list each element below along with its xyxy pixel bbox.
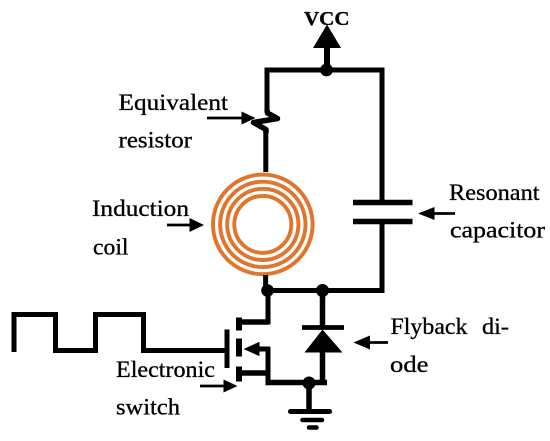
VCC power arrow symbol [313,25,341,73]
svg-text:resistor: resistor [119,128,193,154]
svg-text:switch: switch [116,395,180,421]
node: VCC junction dot [320,64,333,77]
ground symbol [291,383,330,428]
label: Induction coil [92,196,189,261]
capacitor C (resonant capacitor) plates [353,203,413,222]
arrow pointing to resistor [207,112,256,125]
svg-text:di-: di- [482,314,509,340]
svg-text:ode: ode [390,352,429,378]
wire: resistor to induction coil [263,129,268,172]
wire: top rail [265,68,385,73]
svg-text:capacitor: capacitor [450,218,545,244]
label: Flyback diode (hyphenated) [390,314,509,378]
svg-text:Resonant: Resonant [449,180,540,206]
inductor L (induction coil) [213,175,313,275]
wire: right branch upper [380,68,385,203]
resistor R (equivalent resistor) zigzag [254,110,278,133]
label: Electronic switch [116,357,215,421]
node: diode top junction dot [316,284,329,297]
arrow pointing to diode [354,336,389,350]
node: ground junction dot [303,377,316,390]
wire: coil bottom to mid rail [263,275,268,290]
node: drain junction dot [261,284,274,297]
transistor Q1 (electronic switch, n-MOSFET) [227,290,270,383]
svg-text:Flyback: Flyback [391,314,468,340]
diode D1 (flyback diode) [302,293,344,383]
arrow pointing to coil [167,218,204,232]
wire: right branch lower [380,224,385,291]
label: Equivalent resistor [119,90,229,154]
wire: source bottom rail [266,380,328,386]
label: Resonant capacitor [449,180,545,244]
wire: mid rail [262,288,385,293]
svg-text:Equivalent: Equivalent [119,90,229,116]
wire: left branch from top rail down to resistor [265,68,270,113]
square wave drive signal [14,315,226,353]
svg-text:Electronic: Electronic [116,357,215,383]
arrow pointing to switch [200,380,238,393]
svg-text:Induction: Induction [92,196,189,222]
svg-text:coil: coil [93,235,129,261]
arrow pointing to capacitor [418,207,455,220]
